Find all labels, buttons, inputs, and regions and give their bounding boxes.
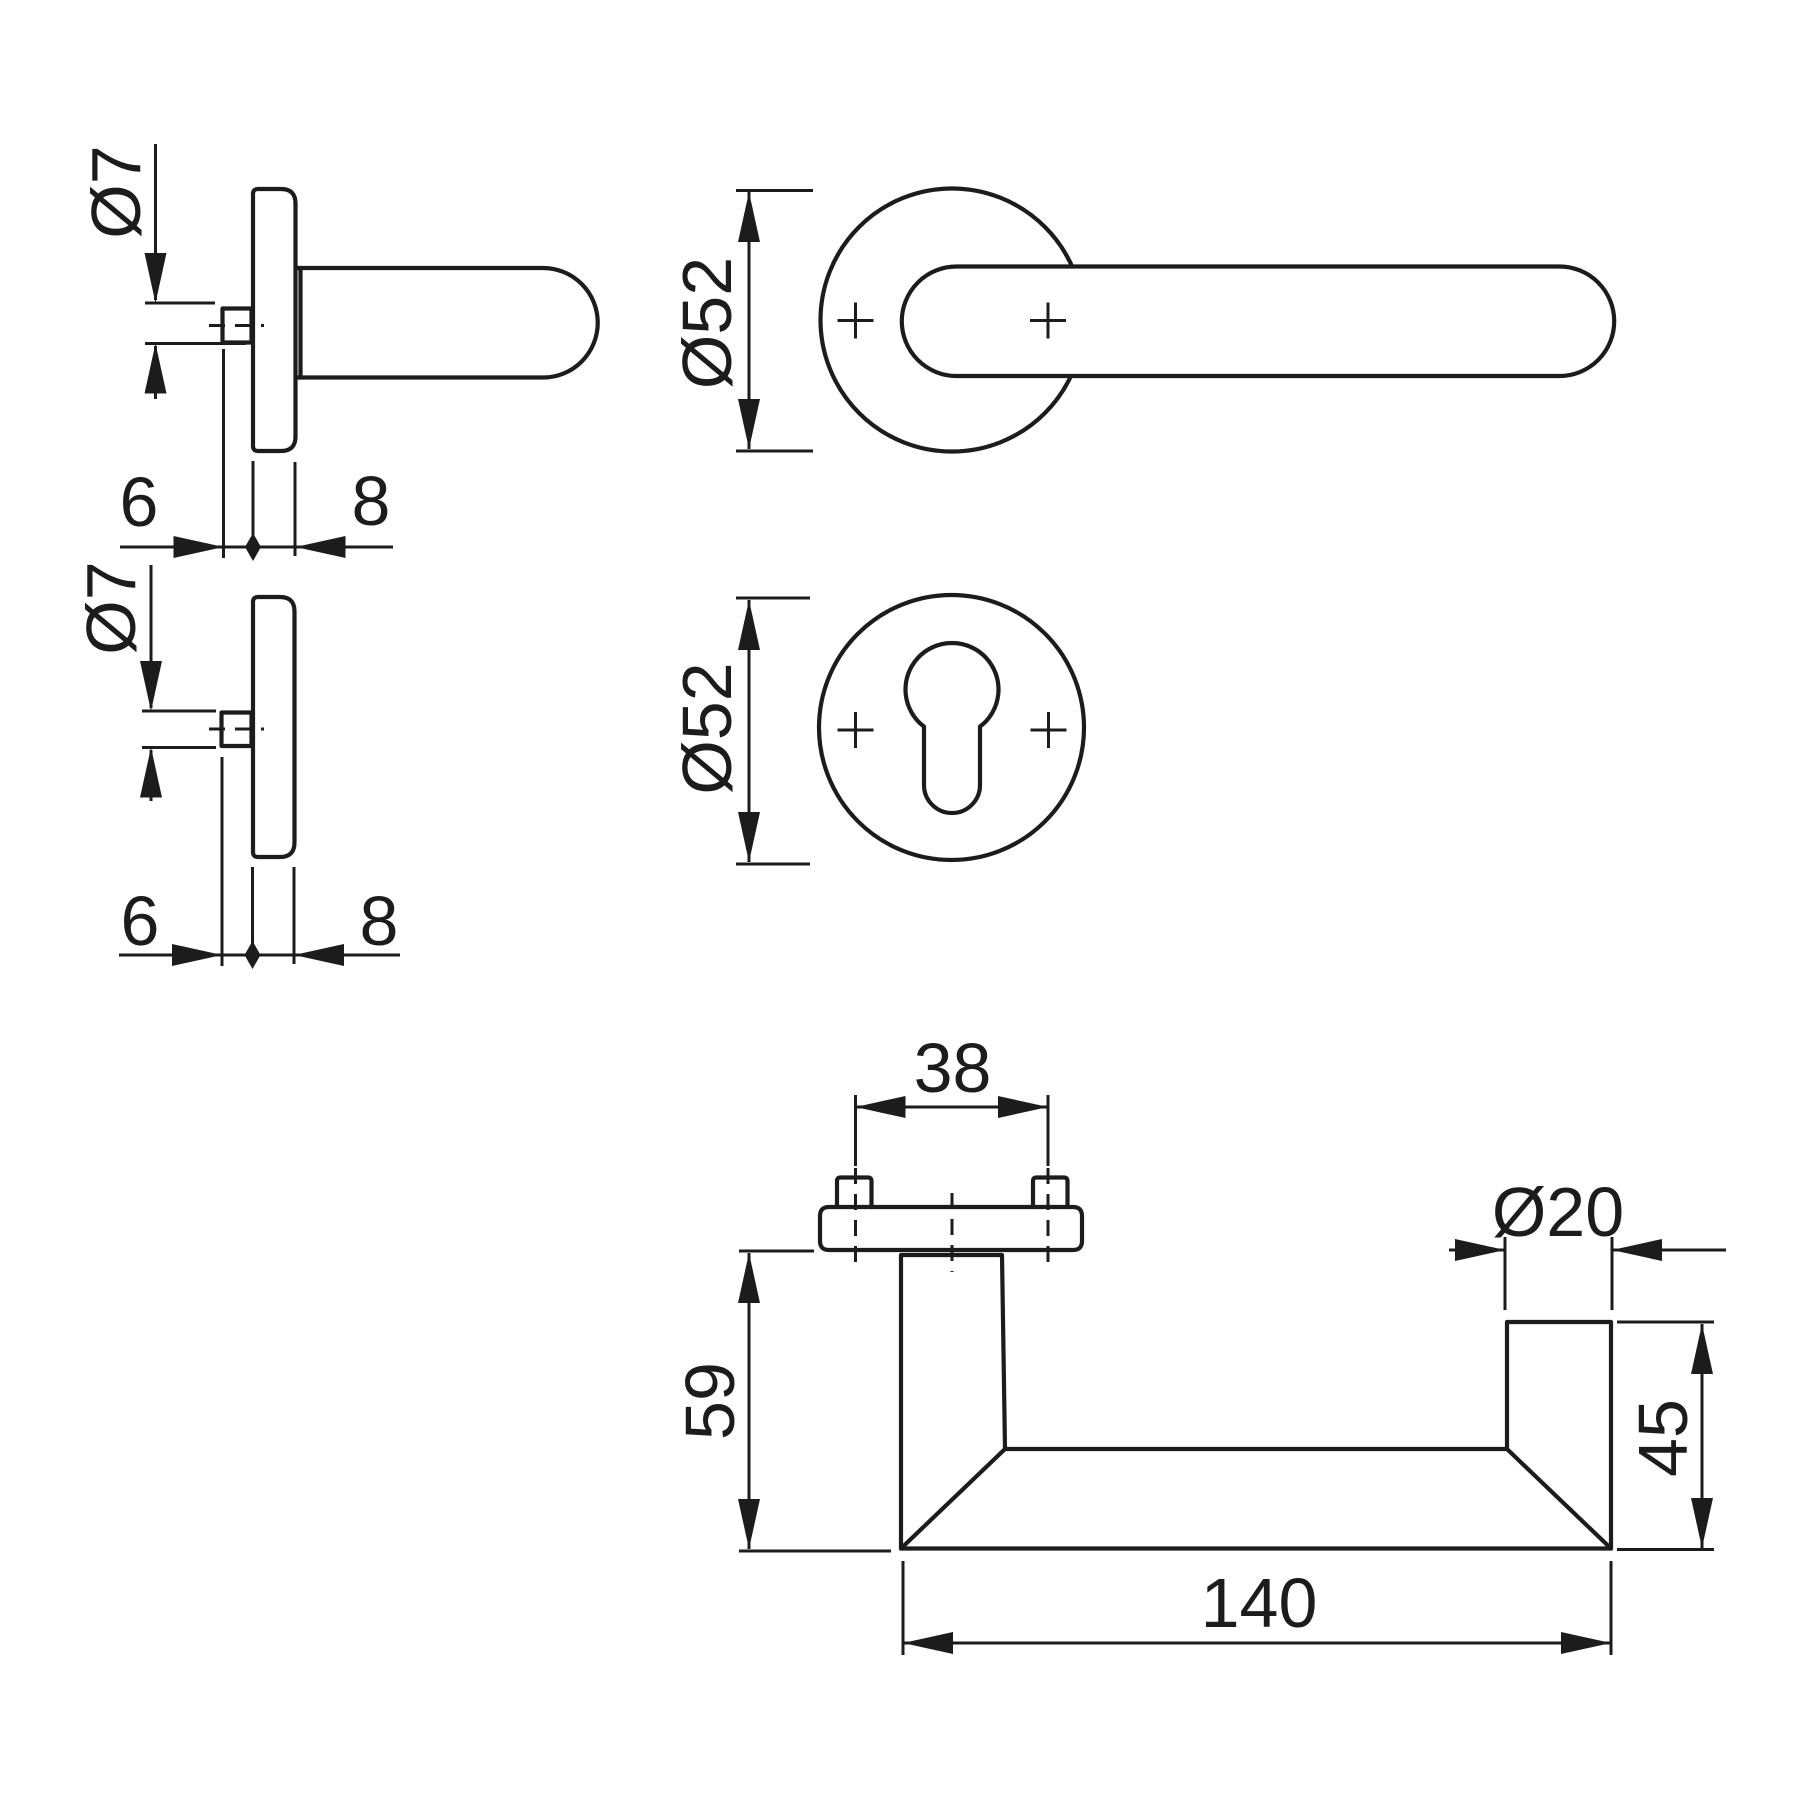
euro profile cylinder hole: [905, 643, 998, 813]
extension tick top of spindle: [145, 302, 215, 305]
screw position cross right: [1030, 303, 1066, 339]
svg-text:140: 140: [1201, 1564, 1318, 1642]
arrow down: [738, 1499, 760, 1549]
arrow left (points left): [856, 1096, 906, 1118]
extension tick bottom of spindle: [145, 342, 246, 345]
arrow up: [1691, 1324, 1713, 1374]
grip/rose joint line: [298, 268, 302, 378]
dimension Ø52 (rose) : extension tick top: [736, 189, 813, 192]
leader line below: [154, 346, 157, 399]
extension line plate back: [293, 867, 296, 964]
dimension line 6 / 8 (lower): [119, 954, 400, 957]
dimension 59 : extension tick top: [739, 1250, 814, 1253]
svg-text:Ø7: Ø7: [72, 561, 150, 654]
dimension line 59: [748, 1253, 751, 1549]
dimension line: [748, 192, 751, 449]
dimension tail left: [1449, 1249, 1505, 1252]
extension line spindle face: [221, 757, 224, 966]
extension line rose front: [252, 461, 255, 556]
arrow (points left): [1612, 1239, 1662, 1261]
rose circle: [821, 189, 1084, 452]
dimension Ø20 : extension line left: [1504, 1237, 1507, 1310]
escutcheon plate (side profile): [253, 597, 295, 857]
dimension Ø7 (upper view) : leader line: [154, 144, 157, 300]
dimension Ø7 arrow down: [145, 253, 167, 303]
boss centre line left (dashed): [854, 1168, 857, 1272]
screw position cross left: [838, 303, 874, 339]
extension tick bottom: [739, 1550, 891, 1553]
escutcheon circle: [819, 595, 1084, 860]
spindle centre line (dashed): [209, 728, 264, 731]
screw boss right: [1033, 1178, 1068, 1208]
screw position cross right: [1031, 712, 1067, 748]
grip outer edge: [901, 1546, 1611, 1550]
svg-text:8: 8: [360, 882, 399, 960]
svg-text:Ø52: Ø52: [668, 257, 746, 389]
lever grip (side, round end cap): [296, 268, 598, 378]
arrow up: [738, 1253, 760, 1303]
arrow up: [140, 748, 162, 798]
dimension Ø7 (lower view) : leader line: [150, 565, 153, 708]
lever grip (stadium, covers rose): [902, 267, 1614, 377]
diamond separator: [245, 533, 261, 561]
dimension line: [748, 600, 751, 862]
svg-text:Ø52: Ø52: [668, 662, 746, 794]
handle neck (top view): [901, 1255, 1005, 1549]
svg-text:Ø20: Ø20: [1492, 1173, 1624, 1251]
arrow down: [738, 399, 760, 449]
arrow left (points left): [903, 1632, 953, 1654]
arrow down: [738, 812, 760, 862]
spindle centre line (dashed): [209, 324, 264, 327]
extension tick top: [142, 710, 216, 713]
arrow down: [140, 661, 162, 711]
dimension line 140: [903, 1642, 1611, 1645]
diamond separator: [245, 941, 261, 969]
arrow 8 (points left): [294, 944, 344, 966]
extension tick bottom: [142, 746, 216, 749]
arrow (points right): [1455, 1239, 1505, 1261]
rose plate (side profile): [253, 189, 296, 451]
extension line right: [1610, 1561, 1613, 1655]
arrow 6 (points right): [174, 536, 224, 558]
extension line rose back: [294, 462, 297, 556]
extension line right: [1611, 1237, 1614, 1310]
arrow up: [738, 192, 760, 242]
extension line plate front: [251, 867, 254, 964]
dimension 45 : extension tick top: [1617, 1321, 1714, 1324]
rose flange (top view): [820, 1207, 1082, 1250]
svg-text:38: 38: [914, 1029, 992, 1107]
dimension Ø52 (escutcheon) : extension tick top: [736, 597, 810, 600]
arrow down: [1691, 1498, 1713, 1548]
screw position cross left: [838, 712, 874, 748]
mitre seam right: [1507, 1449, 1611, 1549]
dimension Ø7 arrow up: [145, 344, 167, 394]
svg-text:59: 59: [671, 1362, 749, 1440]
extension tick bottom: [1617, 1548, 1714, 1551]
screw boss left: [837, 1178, 872, 1208]
grip inner edge: [1005, 1447, 1507, 1451]
leader line below: [150, 750, 153, 801]
extension tick bottom: [736, 450, 813, 453]
svg-text:Ø7: Ø7: [77, 145, 155, 238]
dimension tail right: [1612, 1249, 1726, 1252]
arrow right (points right): [998, 1096, 1048, 1118]
mitre seam left: [901, 1449, 1005, 1549]
grip end face: [1507, 1322, 1611, 1549]
boss centre line right (dashed): [1047, 1168, 1050, 1272]
spindle screw boss: [223, 309, 252, 343]
svg-text:6: 6: [120, 463, 159, 541]
arrow 6 (points right): [172, 944, 222, 966]
arrow up: [738, 600, 760, 650]
dimension 140 : extension line left: [902, 1561, 905, 1655]
flange centre line (dashed): [951, 1193, 954, 1272]
extension tick bottom: [736, 863, 810, 866]
svg-text:6: 6: [121, 882, 160, 960]
arrow 8 (points left): [296, 536, 346, 558]
svg-text:8: 8: [352, 462, 391, 540]
extension line spindle face: [222, 349, 225, 558]
svg-text:45: 45: [1624, 1399, 1702, 1477]
extension line right: [1047, 1095, 1050, 1166]
dimension line 38: [856, 1106, 1049, 1109]
dimension line 6 / 8: [120, 546, 393, 549]
dimension line 45: [1701, 1324, 1704, 1548]
spindle screw boss: [222, 713, 252, 747]
dimension 38 : extension line left: [854, 1095, 857, 1166]
arrow right (points right): [1561, 1632, 1611, 1654]
